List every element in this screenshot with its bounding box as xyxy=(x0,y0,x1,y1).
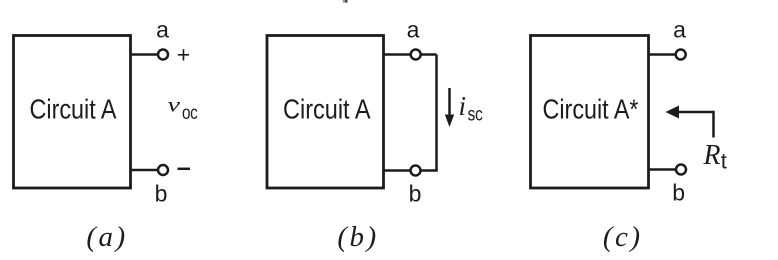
svg-text:(a): (a) xyxy=(86,221,127,253)
svg-text:(b): (b) xyxy=(337,221,378,253)
svg-text:Circuit A: Circuit A xyxy=(30,94,118,125)
terminal b (figure b) xyxy=(411,166,421,176)
circuit box A* (figure c) xyxy=(531,36,649,189)
terminal b (figure c) xyxy=(676,165,686,175)
svg-text:oc: oc xyxy=(182,103,198,124)
svg-text:b: b xyxy=(672,180,685,206)
terminal a (figure a) xyxy=(158,50,168,60)
resistance arrow into network xyxy=(666,106,714,138)
stray crop artifact at top xyxy=(343,0,348,3)
svg-text:b: b xyxy=(409,181,422,207)
svg-text:v: v xyxy=(168,95,181,117)
wire to terminal a (figure c) xyxy=(648,53,675,56)
wire to terminal a (figure a) xyxy=(130,53,157,56)
terminal a (figure b) xyxy=(411,50,421,60)
wire to terminal b (figure c) xyxy=(648,168,675,171)
circuit box A (figure b) xyxy=(267,36,384,189)
svg-text:a: a xyxy=(156,17,169,43)
circuit box A (figure a) xyxy=(14,36,131,189)
minus sign xyxy=(178,168,191,171)
wire box to terminal b (figure b) xyxy=(383,169,438,172)
current arrow i_sc xyxy=(445,88,454,127)
svg-text:b: b xyxy=(155,181,168,207)
terminal a (figure c) xyxy=(676,50,686,60)
svg-text:Circuit A*: Circuit A* xyxy=(543,94,639,125)
short-circuit wire right side xyxy=(435,55,438,171)
svg-text:Circuit A: Circuit A xyxy=(283,94,371,125)
svg-text:sc: sc xyxy=(468,105,483,126)
svg-text:a: a xyxy=(407,17,420,43)
svg-text:R: R xyxy=(703,140,721,171)
svg-text:a: a xyxy=(673,17,686,43)
svg-text:+: + xyxy=(177,42,190,68)
wire to terminal b (figure a) xyxy=(130,169,157,172)
svg-text:t: t xyxy=(721,149,727,174)
terminal b (figure a) xyxy=(158,165,168,175)
svg-text:(c): (c) xyxy=(603,221,643,253)
wire box to terminal a (figure b) xyxy=(383,53,437,56)
svg-text:i: i xyxy=(459,91,467,121)
